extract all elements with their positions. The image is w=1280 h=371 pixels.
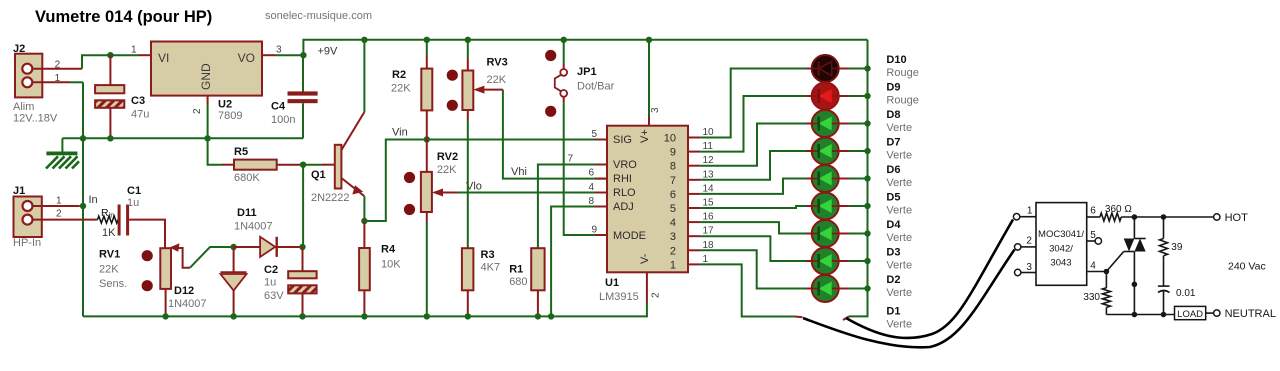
svg-text:Vin: Vin (392, 127, 408, 139)
MOC pin 4 (1087, 261, 1107, 272)
wire ground rail (83, 272, 647, 316)
opto-triac U3 MOC3041 (1036, 203, 1087, 286)
svg-text:Vumetre 014 (pour HP): Vumetre 014 (pour HP) (35, 8, 212, 26)
svg-text:6: 6 (670, 189, 676, 201)
LED D10 (806, 55, 868, 82)
svg-text:LM3915: LM3915 (599, 291, 639, 303)
wire hand-drawn to MOC pin 1 (846, 220, 1013, 339)
svg-text:3: 3 (1026, 262, 1032, 273)
svg-text:7: 7 (567, 154, 573, 165)
svg-text:J1: J1 (13, 185, 25, 197)
svg-text:22K: 22K (99, 264, 119, 276)
svg-text:VI: VI (158, 51, 169, 65)
node Vin / R2 / RV2 (424, 136, 430, 142)
svg-text:330: 330 (1083, 292, 1100, 303)
svg-text:1N4007: 1N4007 (168, 298, 207, 310)
node In (80, 203, 86, 209)
svg-text:1: 1 (703, 254, 709, 265)
svg-text:Rouge: Rouge (886, 67, 918, 79)
svg-text:VO: VO (238, 51, 255, 65)
svg-text:RV2: RV2 (437, 151, 458, 163)
label LED D9 (886, 82, 918, 107)
wire +9V top rail (303, 40, 867, 55)
LED D7 (806, 138, 868, 165)
node rail/triac (1132, 312, 1138, 318)
resistor R3 4K7 (462, 248, 500, 316)
MOC pin 3 (1015, 262, 1037, 276)
svg-text:12: 12 (703, 155, 715, 166)
svg-text:9: 9 (591, 225, 597, 236)
wire pin 11 to LED D9 (700, 96, 806, 152)
svg-text:16: 16 (703, 212, 715, 223)
svg-text:V-: V- (639, 253, 651, 264)
svg-text:18: 18 (703, 240, 715, 251)
svg-text:4K7: 4K7 (481, 262, 501, 274)
svg-text:C3: C3 (131, 95, 145, 107)
svg-text:MODE: MODE (613, 230, 646, 242)
node RV1 wiper / D12 / D11 (230, 244, 236, 250)
svg-text:47u: 47u (131, 109, 149, 121)
svg-text:D7: D7 (886, 137, 900, 149)
wire pin 16 to LED D4 (700, 222, 806, 233)
svg-text:5: 5 (1090, 230, 1096, 241)
resistor R1 680 (509, 248, 544, 316)
svg-text:5: 5 (670, 203, 676, 215)
svg-text:22K: 22K (437, 164, 457, 176)
svg-text:GND: GND (199, 63, 213, 90)
svg-text:3: 3 (650, 107, 661, 113)
wire pin 18 to LED D2 (700, 250, 806, 288)
svg-text:J2: J2 (13, 43, 25, 55)
wire U2 VO pin 3 to +9V node (262, 44, 303, 55)
svg-text:RHI: RHI (613, 173, 632, 185)
LED D5 (806, 193, 868, 220)
svg-text:C2: C2 (264, 264, 278, 276)
svg-text:13: 13 (703, 169, 715, 180)
svg-text:6: 6 (588, 168, 594, 179)
svg-text:Verte: Verte (886, 177, 912, 189)
wire LED anode rail (843, 40, 868, 320)
svg-text:17: 17 (703, 226, 715, 237)
potentiometer RV2 22K (404, 140, 607, 317)
terminal HOT (1214, 212, 1248, 224)
svg-text:C1: C1 (127, 185, 141, 197)
wire RV1 bottom to rail (165, 289, 167, 317)
ground symbol (46, 138, 79, 168)
svg-text:V+: V+ (639, 129, 651, 143)
svg-text:D11: D11 (237, 207, 257, 219)
wire U2 GND pin 2 down to ground bus (192, 96, 208, 139)
wire Vin (emitter to SIG) (364, 140, 607, 222)
capacitor C4 100n (271, 55, 318, 138)
svg-text:Verte: Verte (886, 287, 912, 299)
wire U1 V+ pin 3 (649, 40, 661, 126)
capacitor 0.01 (1158, 286, 1196, 314)
label LED D7 (886, 137, 912, 162)
svg-text:360 Ω: 360 Ω (1105, 204, 1132, 215)
label LED D2 (886, 274, 912, 299)
svg-text:SIG: SIG (613, 134, 632, 146)
node bus junctions (80, 135, 211, 141)
wire pin 12 to LED D8 (700, 124, 806, 166)
node rail junctions (162, 313, 554, 319)
svg-text:ADJ: ADJ (613, 201, 634, 213)
svg-text:0.01: 0.01 (1176, 288, 1196, 299)
LED D4 (806, 220, 868, 247)
label LED D1 (886, 306, 912, 331)
U1 left pin stubs (595, 140, 607, 236)
svg-text:R5: R5 (234, 146, 248, 158)
svg-text:6: 6 (1090, 206, 1096, 217)
node pin4/gate/330 (1104, 269, 1110, 275)
svg-text:Q1: Q1 (311, 169, 326, 181)
svg-text:8: 8 (670, 161, 676, 173)
MOC pin 2 (1015, 236, 1037, 250)
connector J1 HP-In (13, 185, 62, 249)
svg-text:9: 9 (670, 147, 676, 159)
svg-text:D1: D1 (886, 306, 900, 318)
svg-text:RV3: RV3 (487, 57, 508, 69)
wire ground bus (62, 137, 303, 139)
svg-text:2: 2 (1026, 236, 1032, 247)
svg-text:NEUTRAL: NEUTRAL (1225, 308, 1276, 320)
svg-text:22K: 22K (391, 83, 411, 95)
svg-text:680: 680 (509, 276, 527, 288)
label LED D6 (886, 164, 912, 189)
svg-text:U1: U1 (605, 277, 619, 289)
svg-text:1: 1 (56, 196, 62, 207)
transistor Q1 2N2222 (303, 40, 364, 221)
svg-text:3043: 3043 (1050, 258, 1071, 269)
svg-text:Verte: Verte (886, 122, 912, 134)
resistor R4 10K (359, 221, 401, 316)
LED D6 (806, 165, 868, 192)
svg-text:680K: 680K (234, 172, 260, 184)
svg-text:D8: D8 (886, 109, 900, 121)
label LED D4 (886, 219, 912, 244)
regulator U2 7809 (151, 42, 262, 123)
potentiometer RV3 22K (447, 40, 607, 248)
svg-text:VRO: VRO (613, 159, 637, 171)
svg-text:15: 15 (703, 198, 715, 209)
svg-text:39: 39 (1171, 242, 1183, 253)
resistor 39 (1160, 217, 1183, 286)
connector J2 (13, 43, 61, 125)
svg-text:2: 2 (670, 245, 676, 257)
resistor Rin 1K (zigzag) (98, 207, 119, 239)
svg-text:240 Vac: 240 Vac (1228, 261, 1266, 273)
resistor R5 680K (208, 138, 304, 184)
node +9V at VO (300, 52, 306, 58)
svg-text:3042/: 3042/ (1049, 244, 1073, 255)
svg-text:Verte: Verte (886, 260, 912, 272)
potentiometer RV1 22K Sens. (99, 243, 234, 291)
MOC pin 1 (1013, 206, 1036, 220)
svg-text:R4: R4 (381, 244, 396, 256)
LED D2 (806, 275, 868, 302)
svg-text:1: 1 (1027, 206, 1033, 217)
svg-text:8: 8 (588, 196, 594, 207)
capacitor C2 1u 63V (264, 247, 317, 316)
triac Q (1106, 217, 1145, 315)
svg-text:D5: D5 (886, 192, 900, 204)
svg-text:Alim: Alim (13, 101, 34, 113)
svg-text:MOC3041/: MOC3041/ (1038, 229, 1084, 240)
U1 right pin stubs and outside numbers (688, 127, 714, 265)
svg-text:1u: 1u (127, 197, 139, 209)
svg-text:10: 10 (703, 127, 715, 138)
svg-text:D12: D12 (174, 285, 194, 297)
label LED D10 (886, 54, 918, 79)
svg-text:22K: 22K (487, 74, 507, 86)
svg-text:Verte: Verte (886, 205, 912, 217)
jumper JP1 Dot/Bar (545, 40, 615, 117)
wire pin 10 to LED D10 (700, 69, 806, 138)
svg-text:Rouge: Rouge (886, 95, 918, 107)
svg-text:R2: R2 (392, 69, 406, 81)
node Q1 base / R5 / D11 column (300, 162, 306, 168)
capacitor C3 47u (95, 55, 149, 138)
resistor 330 (1083, 272, 1110, 315)
labels U1 right inside pin names (664, 133, 676, 272)
svg-text:Verte: Verte (886, 150, 912, 162)
diode D12 1N4007 (168, 247, 247, 316)
wire C1 to RV1 (129, 220, 165, 249)
svg-text:In: In (89, 194, 98, 206)
svg-text:12V..18V: 12V..18V (13, 113, 58, 125)
svg-text:1K: 1K (102, 227, 116, 239)
label LED D8 (886, 109, 912, 134)
svg-text:D4: D4 (886, 219, 901, 231)
node LED rail junctions (864, 65, 870, 291)
MOC pin 5 (1087, 230, 1102, 244)
svg-text:4: 4 (1090, 261, 1096, 272)
resistor R2 22K (391, 40, 432, 140)
svg-text:1: 1 (131, 44, 137, 55)
svg-text:D3: D3 (886, 247, 900, 259)
svg-text:1u: 1u (264, 277, 276, 289)
wire pin 17 to LED D3 (700, 236, 806, 261)
LED D8 (806, 110, 868, 137)
wire base node down to D11 node (302, 165, 304, 247)
wire J2 pin1 / ground column (33, 82, 83, 316)
svg-text:HP-In: HP-In (13, 237, 41, 249)
LED D9 (806, 83, 868, 110)
node +12V junction (107, 52, 113, 58)
node triac column (1132, 282, 1138, 288)
svg-text:Sens.: Sens. (99, 278, 127, 290)
wire VRO pin7 to R1 (538, 165, 607, 249)
svg-text:sonelec-musique.com: sonelec-musique.com (265, 10, 372, 22)
svg-text:JP1: JP1 (577, 66, 597, 78)
wire MOC bottom rail (1106, 314, 1177, 316)
wire hand-drawn to MOC pin 2 (803, 250, 1015, 348)
load LOAD box (1175, 306, 1214, 319)
svg-text:1: 1 (670, 259, 676, 271)
svg-text:D2: D2 (886, 274, 900, 286)
svg-text:10: 10 (664, 133, 676, 145)
svg-text:C4: C4 (271, 101, 286, 113)
terminal NEUTRAL (1214, 308, 1276, 320)
svg-text:Verte: Verte (886, 319, 912, 331)
wire JP1 to MODE pin9 (564, 102, 607, 235)
MOC pin 6 and resistor 360 ohm (1087, 204, 1217, 221)
label LED D3 (886, 247, 912, 272)
svg-text:HOT: HOT (1225, 212, 1249, 224)
svg-text:14: 14 (703, 183, 715, 194)
wire ADJ pin8 to ground (551, 207, 607, 317)
svg-text:R1: R1 (509, 264, 523, 276)
svg-text:1N4007: 1N4007 (234, 221, 273, 233)
label LED D5 (886, 192, 912, 217)
svg-text:RLO: RLO (613, 187, 636, 199)
wire J2 pin2 to +12V node (33, 55, 139, 68)
svg-text:63V: 63V (264, 290, 284, 302)
svg-text:U2: U2 (218, 99, 232, 111)
svg-text:7809: 7809 (218, 110, 242, 122)
node 360/triac (1132, 214, 1138, 220)
svg-text:D10: D10 (886, 54, 906, 66)
svg-text:2: 2 (56, 209, 62, 220)
labels U1 left pin numbers (567, 129, 597, 236)
svg-text:LOAD: LOAD (1177, 309, 1203, 320)
svg-text:4: 4 (588, 182, 594, 193)
node Q1 emitter / R4 (361, 218, 367, 224)
wire pin 15 to LED D5 (700, 206, 806, 208)
svg-text:11: 11 (703, 141, 714, 152)
diode D11 1N4007 (234, 207, 303, 257)
svg-text:10K: 10K (381, 259, 401, 271)
svg-text:3: 3 (276, 44, 282, 55)
IC U1 LM3915 (599, 126, 688, 303)
svg-text:2: 2 (651, 292, 662, 298)
wire J1 pin2 to Rin (33, 219, 98, 221)
svg-text:4: 4 (670, 217, 676, 229)
node 360/snubber (1161, 214, 1167, 220)
svg-text:3: 3 (670, 231, 676, 243)
svg-text:+9V: +9V (318, 46, 339, 58)
svg-text:D9: D9 (886, 82, 900, 94)
LED D3 (806, 248, 868, 275)
svg-text:5: 5 (591, 129, 597, 140)
svg-text:RV1: RV1 (99, 249, 120, 261)
svg-text:2: 2 (192, 108, 203, 114)
node rail junctions (361, 37, 652, 43)
capacitor C1 1u (118, 185, 141, 236)
wire pin 14 to LED D6 (700, 179, 806, 194)
svg-text:100n: 100n (271, 114, 295, 126)
wire J1 pin1 to In node (33, 205, 80, 207)
svg-text:R3: R3 (481, 249, 495, 261)
svg-text:Vhi: Vhi (511, 166, 527, 178)
node D11 cathode / C2 (299, 244, 305, 250)
svg-text:Verte: Verte (886, 232, 912, 244)
svg-text:7: 7 (670, 175, 676, 187)
wire +12V to U2 VI pin 1 (131, 44, 151, 55)
node rail/snubber (1161, 312, 1167, 318)
svg-text:D6: D6 (886, 164, 900, 176)
wire pin 1 output tap (700, 264, 802, 317)
svg-text:2N2222: 2N2222 (311, 192, 350, 204)
wire pin 13 to LED D7 (700, 151, 806, 180)
svg-text:Dot/Bar: Dot/Bar (577, 81, 615, 93)
